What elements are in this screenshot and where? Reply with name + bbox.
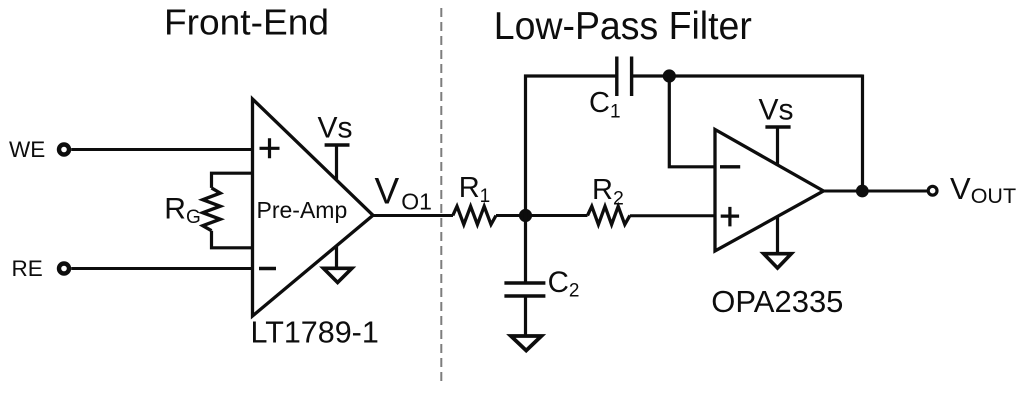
wire RE to op-amp U1 - input bbox=[71, 267, 252, 270]
wire U2 output to terminal VOUT bbox=[824, 190, 928, 193]
wire node B to output rail corner bbox=[669, 74, 862, 77]
resistor RG bbox=[203, 188, 220, 231]
junction node A bbox=[519, 209, 532, 222]
power Vs of U2 bbox=[759, 93, 794, 166]
ground of C2 bbox=[511, 336, 542, 351]
svg-text:OPA2335: OPA2335 bbox=[711, 284, 843, 319]
svg-text:Pre-Amp: Pre-Amp bbox=[257, 197, 348, 223]
dashed section divider bbox=[440, 8, 442, 386]
wire node B down to U2 - input bbox=[669, 76, 715, 167]
wire RG top stub bbox=[212, 173, 253, 188]
terminal RE bbox=[59, 264, 69, 274]
op-amp U2 - input sign bbox=[720, 165, 740, 168]
wire R2 to op-amp U2 + input bbox=[630, 214, 715, 217]
resistor R2 bbox=[588, 206, 630, 224]
wire node A up to feedback rail bbox=[524, 75, 527, 216]
wire feedback rail to C1 bbox=[524, 74, 617, 77]
op-amp U1 bbox=[253, 99, 374, 316]
wire C1 to node B bbox=[632, 74, 670, 77]
op-amp U1 + input sign bbox=[260, 138, 280, 158]
wire RG bottom stub bbox=[212, 231, 253, 248]
junction node B bbox=[663, 69, 676, 82]
capacitor C1 bbox=[617, 57, 632, 97]
resistor R1 bbox=[453, 206, 496, 224]
power Vs of U1 bbox=[318, 112, 353, 180]
capacitor C2 bbox=[504, 283, 545, 296]
svg-text:Vs: Vs bbox=[759, 93, 794, 126]
terminal VOUT bbox=[928, 186, 937, 195]
svg-text:Vs: Vs bbox=[318, 112, 353, 145]
junction output node bbox=[856, 185, 869, 198]
wire U1 output to R1 bbox=[373, 214, 453, 217]
svg-text:Front-End: Front-End bbox=[164, 2, 329, 43]
op-amp U2 + input sign bbox=[721, 207, 739, 227]
wire R1 to node A bbox=[496, 214, 588, 217]
svg-text:LT1789-1: LT1789-1 bbox=[251, 316, 379, 350]
ground of U1 bbox=[323, 246, 352, 283]
svg-text:WE: WE bbox=[9, 137, 45, 162]
wire output rail down to output node bbox=[861, 75, 864, 192]
op-amp U2 bbox=[715, 130, 824, 252]
wire node A down to C2 bbox=[524, 216, 527, 282]
terminal WE bbox=[59, 145, 69, 155]
wire WE to op-amp U1 + input bbox=[71, 148, 252, 151]
ground of U2 bbox=[764, 216, 792, 268]
op-amp U1 - input sign bbox=[259, 267, 276, 271]
wire C2 to ground bbox=[524, 296, 527, 336]
svg-text:RE: RE bbox=[12, 256, 43, 281]
svg-text:Low-Pass Filter: Low-Pass Filter bbox=[494, 5, 752, 48]
